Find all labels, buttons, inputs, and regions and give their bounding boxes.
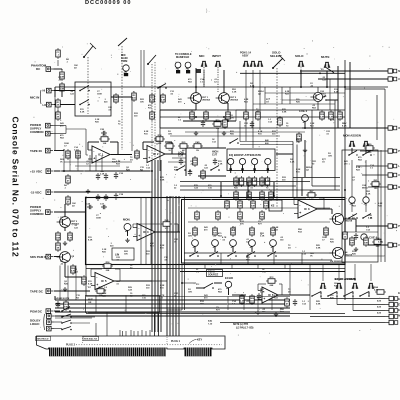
resistor R12 — [135, 149, 140, 160]
svg-text:MIC: MIC — [199, 54, 205, 58]
wire y162 — [64, 161, 132, 163]
wire — [195, 103, 197, 110]
edge connector outline — [37, 336, 226, 349]
wire — [317, 102, 319, 110]
logic box bottom — [86, 296, 160, 313]
svg-text:+: + — [263, 297, 265, 301]
wire — [355, 219, 357, 232]
svg-text:1K: 1K — [296, 142, 299, 144]
wire horizontal y=110 — [185, 109, 345, 111]
resistor R28 — [320, 110, 325, 121]
wire bundle — [86, 268, 345, 270]
wire pgm dc — [54, 310, 60, 312]
svg-text:SOLO: SOLO — [295, 54, 304, 58]
dashed relay actuation line — [87, 57, 89, 114]
wire — [351, 148, 353, 153]
plug boundary dotted vertical — [166, 337, 168, 344]
wire eq tap 3 — [273, 182, 275, 196]
wire — [353, 310, 385, 312]
wire IC4 out — [155, 231, 180, 233]
extra bottom horizontals — [55, 317, 92, 319]
svg-text:10K: 10K — [124, 254, 128, 256]
wire bundle — [55, 299, 290, 301]
resistor R8 — [66, 149, 71, 160]
svg-text:13K: 13K — [238, 206, 242, 208]
wire left box edge — [85, 198, 87, 296]
resistor — [252, 176, 257, 187]
resistor R50 — [225, 199, 230, 210]
dashed tape select vertical — [151, 64, 153, 160]
svg-text:-15 VDC: -15 VDC — [30, 191, 42, 195]
switch eq 4 — [246, 252, 256, 257]
wire — [276, 153, 293, 155]
wire — [362, 174, 384, 176]
wire bundle — [55, 315, 290, 317]
long vertical double line x=182-184 — [181, 265, 183, 310]
resistor R53 — [264, 199, 269, 210]
resistor R19 — [212, 120, 223, 130]
connector label box SDS-HW-II-D — [36, 337, 51, 341]
wire — [64, 204, 66, 217]
transistor FET3 — [57, 217, 80, 228]
wire dashed input drop — [217, 67, 219, 92]
switch echo assign 3 — [343, 292, 354, 297]
wire bundle — [133, 331, 135, 336]
wire bundle — [119, 330, 121, 336]
capacitor C37 — [104, 173, 108, 180]
dashed line inside connector — [76, 344, 222, 346]
resistor R25 — [178, 142, 189, 152]
svg-text:6.8K: 6.8K — [316, 247, 321, 249]
potentiometer — [265, 158, 271, 164]
resistor R71 — [343, 230, 348, 241]
wire — [214, 282, 222, 284]
wire IC1 out — [111, 154, 132, 156]
svg-text:47K: 47K — [324, 232, 328, 235]
ground — [354, 247, 358, 252]
switch eq 5 — [267, 252, 277, 257]
wire — [236, 109, 246, 111]
wire — [368, 186, 384, 188]
pot cue 2 — [302, 115, 309, 124]
capacitor C16 — [114, 172, 118, 179]
wire — [232, 294, 246, 296]
+15 wire row — [54, 170, 150, 172]
jack mic — [201, 61, 207, 66]
connector mic lo — [47, 102, 55, 107]
resistor R5 — [150, 93, 155, 104]
svg-text:CUT: CUT — [178, 155, 184, 158]
wire -15 into bundle — [150, 191, 152, 193]
wire — [309, 264, 311, 295]
wire — [251, 246, 253, 252]
wire bundle — [154, 160, 156, 332]
wire — [292, 142, 294, 199]
wire y166 — [75, 165, 120, 167]
svg-text:TAPE DC: TAPE DC — [30, 290, 44, 294]
more annotation clusters — [58, 77, 383, 305]
resistor R58 — [102, 262, 113, 272]
wire — [127, 231, 129, 237]
inductor L3 — [238, 210, 243, 221]
wire bus y181 — [180, 181, 310, 183]
switch — [317, 96, 327, 101]
resistor R52 — [251, 199, 256, 210]
junction — [159, 86, 161, 88]
resistor above trimmer 2 — [213, 226, 218, 237]
wire bundle — [101, 155, 103, 171]
wire — [235, 110, 237, 121]
wire — [310, 316, 385, 318]
svg-text:COMMON: COMMON — [30, 212, 44, 216]
potentiometer — [252, 158, 258, 164]
wire bundle — [289, 87, 291, 104]
inner eq switch box — [182, 200, 346, 264]
connector mic hi — [47, 88, 55, 93]
wire — [351, 160, 353, 197]
wire bundle — [160, 160, 162, 332]
wire bundle — [55, 311, 290, 313]
wire bundle — [69, 151, 71, 172]
jack mute — [324, 62, 330, 67]
resistor R39 — [68, 231, 73, 242]
resistor R18 — [226, 110, 231, 121]
svg-text:FMD: FMD — [260, 217, 265, 219]
trimmer pot 3 — [230, 240, 237, 249]
jack pgm c — [257, 61, 263, 66]
wire bus — [180, 189, 340, 191]
connector sds pgm in — [46, 254, 54, 259]
pot mon level b — [363, 197, 369, 206]
connector right y175 — [384, 173, 397, 177]
wire bundle — [149, 330, 151, 336]
switch echo source — [203, 283, 214, 289]
wire fet bias bus — [183, 120, 236, 122]
ground — [256, 310, 260, 315]
connector tape dc — [46, 289, 54, 294]
wire — [336, 292, 338, 295]
wire bundle — [178, 196, 180, 336]
extra horizontals in solo area — [265, 92, 345, 94]
resistor R70 — [324, 226, 329, 237]
wire — [64, 228, 66, 232]
svg-text:220K: 220K — [56, 238, 61, 240]
wire mic jack to fet1 — [195, 68, 197, 93]
op-amp IC5 — [91, 273, 118, 290]
wire — [203, 70, 205, 87]
bus top horizontal right — [196, 86, 388, 88]
resistor R151 — [60, 70, 66, 81]
switch echo assign 2 — [327, 292, 338, 297]
wire — [337, 304, 385, 306]
wire — [54, 328, 62, 330]
svg-text:10K: 10K — [103, 143, 107, 145]
connector right echo y304.5 — [385, 302, 398, 306]
wire bundle — [273, 253, 275, 264]
svg-text:8.2K: 8.2K — [88, 283, 93, 285]
wire — [131, 97, 133, 151]
trimmer pot 2 — [212, 240, 219, 249]
wire bundle — [257, 297, 259, 311]
switch eq 3 — [227, 252, 237, 257]
junction — [252, 86, 254, 88]
switch mon b — [362, 214, 372, 219]
wire from IC5 to bundle — [152, 280, 167, 282]
wire — [53, 125, 66, 127]
svg-text:IN914: IN914 — [362, 187, 368, 190]
resistor R35 — [66, 174, 71, 185]
svg-text:13K: 13K — [225, 206, 229, 208]
wire pgm jack down — [252, 70, 254, 148]
resistor R46 — [260, 190, 265, 201]
junction — [195, 116, 197, 118]
bus to connector y=128 — [302, 127, 388, 129]
svg-text:100K: 100K — [96, 218, 101, 220]
resistor R42 — [247, 176, 252, 187]
resistor above trimmer 4 — [250, 226, 255, 237]
wire echo out — [278, 294, 310, 296]
resistor R72 — [266, 277, 277, 287]
resistor R3 — [132, 91, 137, 102]
svg-text:ASSY: ASSY — [242, 55, 249, 58]
middle enclosure box — [86, 198, 346, 265]
wires inside mon box bottom — [345, 231, 378, 233]
svg-text:IC 1: IC 1 — [98, 153, 104, 157]
wire — [356, 165, 384, 167]
svg-text:KEY: KEY — [197, 339, 202, 342]
resistor R36 — [66, 195, 71, 206]
connector right echo y322.5 — [385, 320, 398, 324]
wire bundle — [55, 307, 290, 309]
wire bundle — [145, 331, 147, 336]
svg-text:10K: 10K — [140, 102, 144, 104]
jack mon assign 1 — [349, 141, 355, 146]
connector right y187 — [384, 185, 397, 189]
TAPE DC wiring — [54, 290, 90, 292]
wire — [65, 126, 67, 134]
svg-text:6.8K: 6.8K — [160, 179, 165, 181]
wire — [304, 121, 306, 128]
wire — [182, 282, 196, 284]
tape select lever top — [148, 55, 156, 64]
wire — [63, 149, 65, 151]
svg-text:SDS PGM IN: SDS PGM IN — [30, 255, 47, 259]
wire — [165, 141, 172, 143]
wire bundle — [220, 253, 222, 264]
wire bundle — [166, 196, 168, 336]
wire bundle — [157, 160, 159, 332]
wire feedback left — [88, 141, 99, 143]
wire — [220, 322, 385, 324]
resistor R51 — [238, 199, 243, 210]
junction — [273, 195, 275, 197]
jack echo 4 — [368, 283, 374, 288]
connector right echo y316.5 — [385, 314, 398, 318]
svg-text:1.5K: 1.5K — [260, 183, 265, 185]
resistor R68 — [240, 294, 245, 305]
svg-text:3.3K: 3.3K — [366, 193, 371, 195]
svg-text:INPUT: INPUT — [212, 54, 221, 58]
switch dolby 1 — [61, 314, 72, 318]
wire horizontal y=128 left part — [160, 127, 302, 129]
svg-text:CUE 2: CUE 2 — [299, 109, 308, 113]
wire — [296, 145, 298, 199]
connector tape in — [46, 148, 54, 153]
-15 wire row — [54, 191, 150, 193]
svg-text:IC 2: IC 2 — [153, 152, 159, 156]
wire bundle — [370, 264, 372, 281]
wire bundle — [125, 331, 127, 336]
bus to right connector y=245 — [368, 244, 388, 246]
svg-text:6.2K: 6.2K — [290, 162, 295, 164]
ground — [125, 238, 129, 243]
wire — [160, 109, 196, 111]
wire +15 into bundle — [150, 170, 152, 172]
vertical x=330 from mute — [329, 79, 331, 110]
jack echo 3 — [352, 283, 358, 288]
bus to right connector y=226 — [356, 225, 388, 227]
resistor R90 — [375, 290, 386, 295]
wire tape select row — [159, 110, 161, 128]
connector -15 — [46, 190, 54, 195]
resistor R87 — [364, 236, 369, 247]
edge connector teeth right group — [185, 348, 212, 357]
wire bundle — [158, 314, 160, 337]
wire feedback right — [110, 141, 118, 143]
pot manifold 2 — [185, 62, 191, 70]
resistor R84 — [372, 237, 383, 248]
resistor R10 — [99, 135, 110, 145]
svg-text:0.1%: 0.1% — [309, 199, 314, 201]
wire — [143, 141, 154, 143]
switch echo assign 1 — [311, 292, 322, 297]
junction — [220, 195, 222, 197]
svg-text:2N3954: 2N3954 — [202, 99, 210, 102]
wire eq tap 4 — [301, 178, 303, 196]
inductor L4 — [260, 210, 265, 221]
wire — [365, 203, 367, 212]
switch high cut — [210, 166, 220, 171]
wire IC2 out — [165, 153, 186, 155]
svg-text:NOTE (L) PTB: NOTE (L) PTB — [233, 324, 249, 326]
wire — [106, 313, 108, 337]
resistor R41 — [239, 176, 244, 187]
transformer T1 — [114, 93, 119, 104]
junction — [63, 170, 65, 172]
resistor R43 — [260, 176, 265, 187]
svg-text:3.3K: 3.3K — [260, 291, 265, 293]
capacitor C7 — [201, 120, 205, 127]
svg-text:MUTE: MUTE — [321, 55, 330, 59]
ground — [194, 131, 198, 136]
svg-text:ECHO ASSIGN: ECHO ASSIGN — [335, 277, 357, 281]
pot manifold 1 — [175, 62, 181, 70]
svg-text:) .: ) . — [206, 8, 210, 13]
wire — [365, 160, 367, 197]
wire — [54, 321, 62, 323]
junction — [300, 72, 302, 74]
capacitor C40 — [56, 301, 60, 308]
wire — [239, 121, 241, 142]
wire box to amp input — [111, 96, 132, 98]
wire — [86, 296, 290, 298]
wire — [217, 128, 219, 148]
wire — [224, 102, 228, 104]
dashed gain line — [121, 46, 123, 150]
wire — [95, 323, 97, 336]
resistor R152 — [60, 82, 66, 93]
wire — [289, 264, 291, 295]
svg-text:10K: 10K — [338, 117, 342, 119]
resistor FB2 — [297, 132, 302, 143]
resistor R26 — [193, 156, 198, 167]
svg-text:+: + — [148, 156, 150, 160]
connector J phantom — [46, 67, 54, 72]
connector right echo y310.5 — [385, 308, 398, 312]
phantom switch lever — [84, 46, 93, 57]
switch — [79, 86, 90, 92]
wire — [61, 69, 63, 70]
wire — [227, 103, 229, 110]
right box mon assign enclosure — [342, 150, 378, 262]
resistor R69 — [250, 294, 255, 305]
svg-text:+: + — [299, 211, 301, 215]
jack echo 2 — [336, 283, 342, 288]
switch arrow — [90, 43, 96, 49]
resistor R7 — [150, 110, 155, 121]
svg-text:LM 2N3638: LM 2N3638 — [330, 261, 342, 263]
wire — [232, 246, 234, 252]
resistor C8 — [278, 116, 283, 127]
capacitor — [87, 205, 93, 209]
switch — [176, 166, 186, 171]
svg-text:HI: HI — [43, 89, 46, 93]
junction — [195, 86, 197, 88]
solo select lever — [273, 58, 283, 68]
resistor R14 — [154, 134, 165, 145]
wire horizontal y=117 — [160, 116, 345, 118]
wire bundle — [151, 160, 153, 332]
wire — [352, 292, 354, 295]
svg-text:6.8K: 6.8K — [282, 111, 287, 113]
capacitor C38 — [96, 194, 100, 201]
wire eq tap 1 — [220, 182, 222, 196]
svg-text:FMD: FMD — [238, 217, 243, 219]
transistor FET2 — [216, 93, 239, 104]
resistor R60 — [95, 287, 106, 297]
inductor L2 — [216, 210, 221, 221]
vertical x=312 — [311, 110, 313, 186]
resistor R56 — [71, 264, 76, 275]
junction — [304, 127, 306, 129]
op-amp IC2 — [143, 146, 169, 163]
wire bundle — [141, 330, 143, 336]
svg-text:IC 3: IC 3 — [304, 207, 310, 211]
wire — [57, 60, 59, 66]
svg-text:SOURCE: SOURCE — [208, 274, 219, 277]
switch mon a — [348, 214, 358, 219]
svg-text:68K: 68K — [270, 285, 274, 287]
svg-text:LO: LO — [43, 103, 47, 107]
wire — [245, 118, 247, 122]
wire logic divider 2 — [125, 296, 127, 313]
tape in vertical drop — [63, 151, 65, 172]
transistor Q3 — [329, 213, 352, 224]
vertical dotted separator — [82, 336, 84, 344]
svg-text:A7A: A7A — [377, 306, 382, 309]
svg-text:10K: 10K — [135, 156, 139, 158]
svg-text:EQ BOOST-ATTENUATE: EQ BOOST-ATTENUATE — [229, 153, 261, 157]
